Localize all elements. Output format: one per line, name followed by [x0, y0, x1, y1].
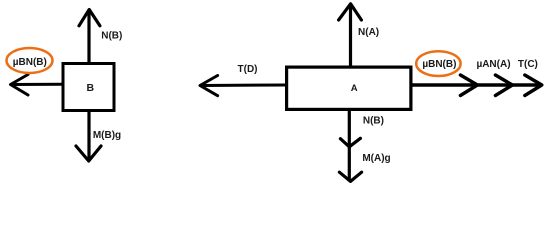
arrowhead M(A)g downward	[339, 172, 361, 181]
arrowhead muAN(A) rightward	[495, 75, 512, 96]
svg-text:µAN(A): µAN(A)	[476, 59, 510, 70]
highlight ellipse around muBN(B) right	[416, 51, 460, 76]
svg-text:M(A)g: M(A)g	[362, 153, 390, 164]
svg-text:M(B)g: M(B)g	[93, 130, 121, 141]
svg-text:µBN(B): µBN(B)	[422, 59, 456, 70]
rightward force shaft	[413, 83, 540, 86]
svg-text:T(D): T(D)	[238, 64, 258, 75]
highlight ellipse around muBN(B)	[7, 48, 53, 73]
block B	[63, 64, 114, 111]
force arrow N(B) upward	[79, 10, 100, 64]
svg-text:A: A	[351, 83, 358, 94]
arrowhead muBN(B) rightward	[460, 75, 477, 96]
svg-text:µBN(B): µBN(B)	[13, 57, 47, 68]
svg-text:N(A): N(A)	[358, 27, 379, 38]
arrowhead N(B) downward	[340, 138, 360, 147]
svg-text:N(B): N(B)	[101, 31, 122, 42]
svg-text:T(C): T(C)	[518, 59, 538, 70]
weight arrow M(B)g downward	[76, 111, 101, 161]
svg-text:N(B): N(B)	[363, 116, 384, 127]
friction force arrow muBN(B) leftward	[11, 75, 62, 96]
svg-text:B: B	[87, 82, 95, 94]
tension arrow T(D) leftward	[200, 76, 285, 96]
arrowhead T(C) rightward	[525, 75, 542, 96]
force arrow N(A) upward	[339, 4, 362, 67]
block A	[287, 67, 411, 109]
downward force shaft N(B)/M(A)g	[348, 111, 351, 180]
